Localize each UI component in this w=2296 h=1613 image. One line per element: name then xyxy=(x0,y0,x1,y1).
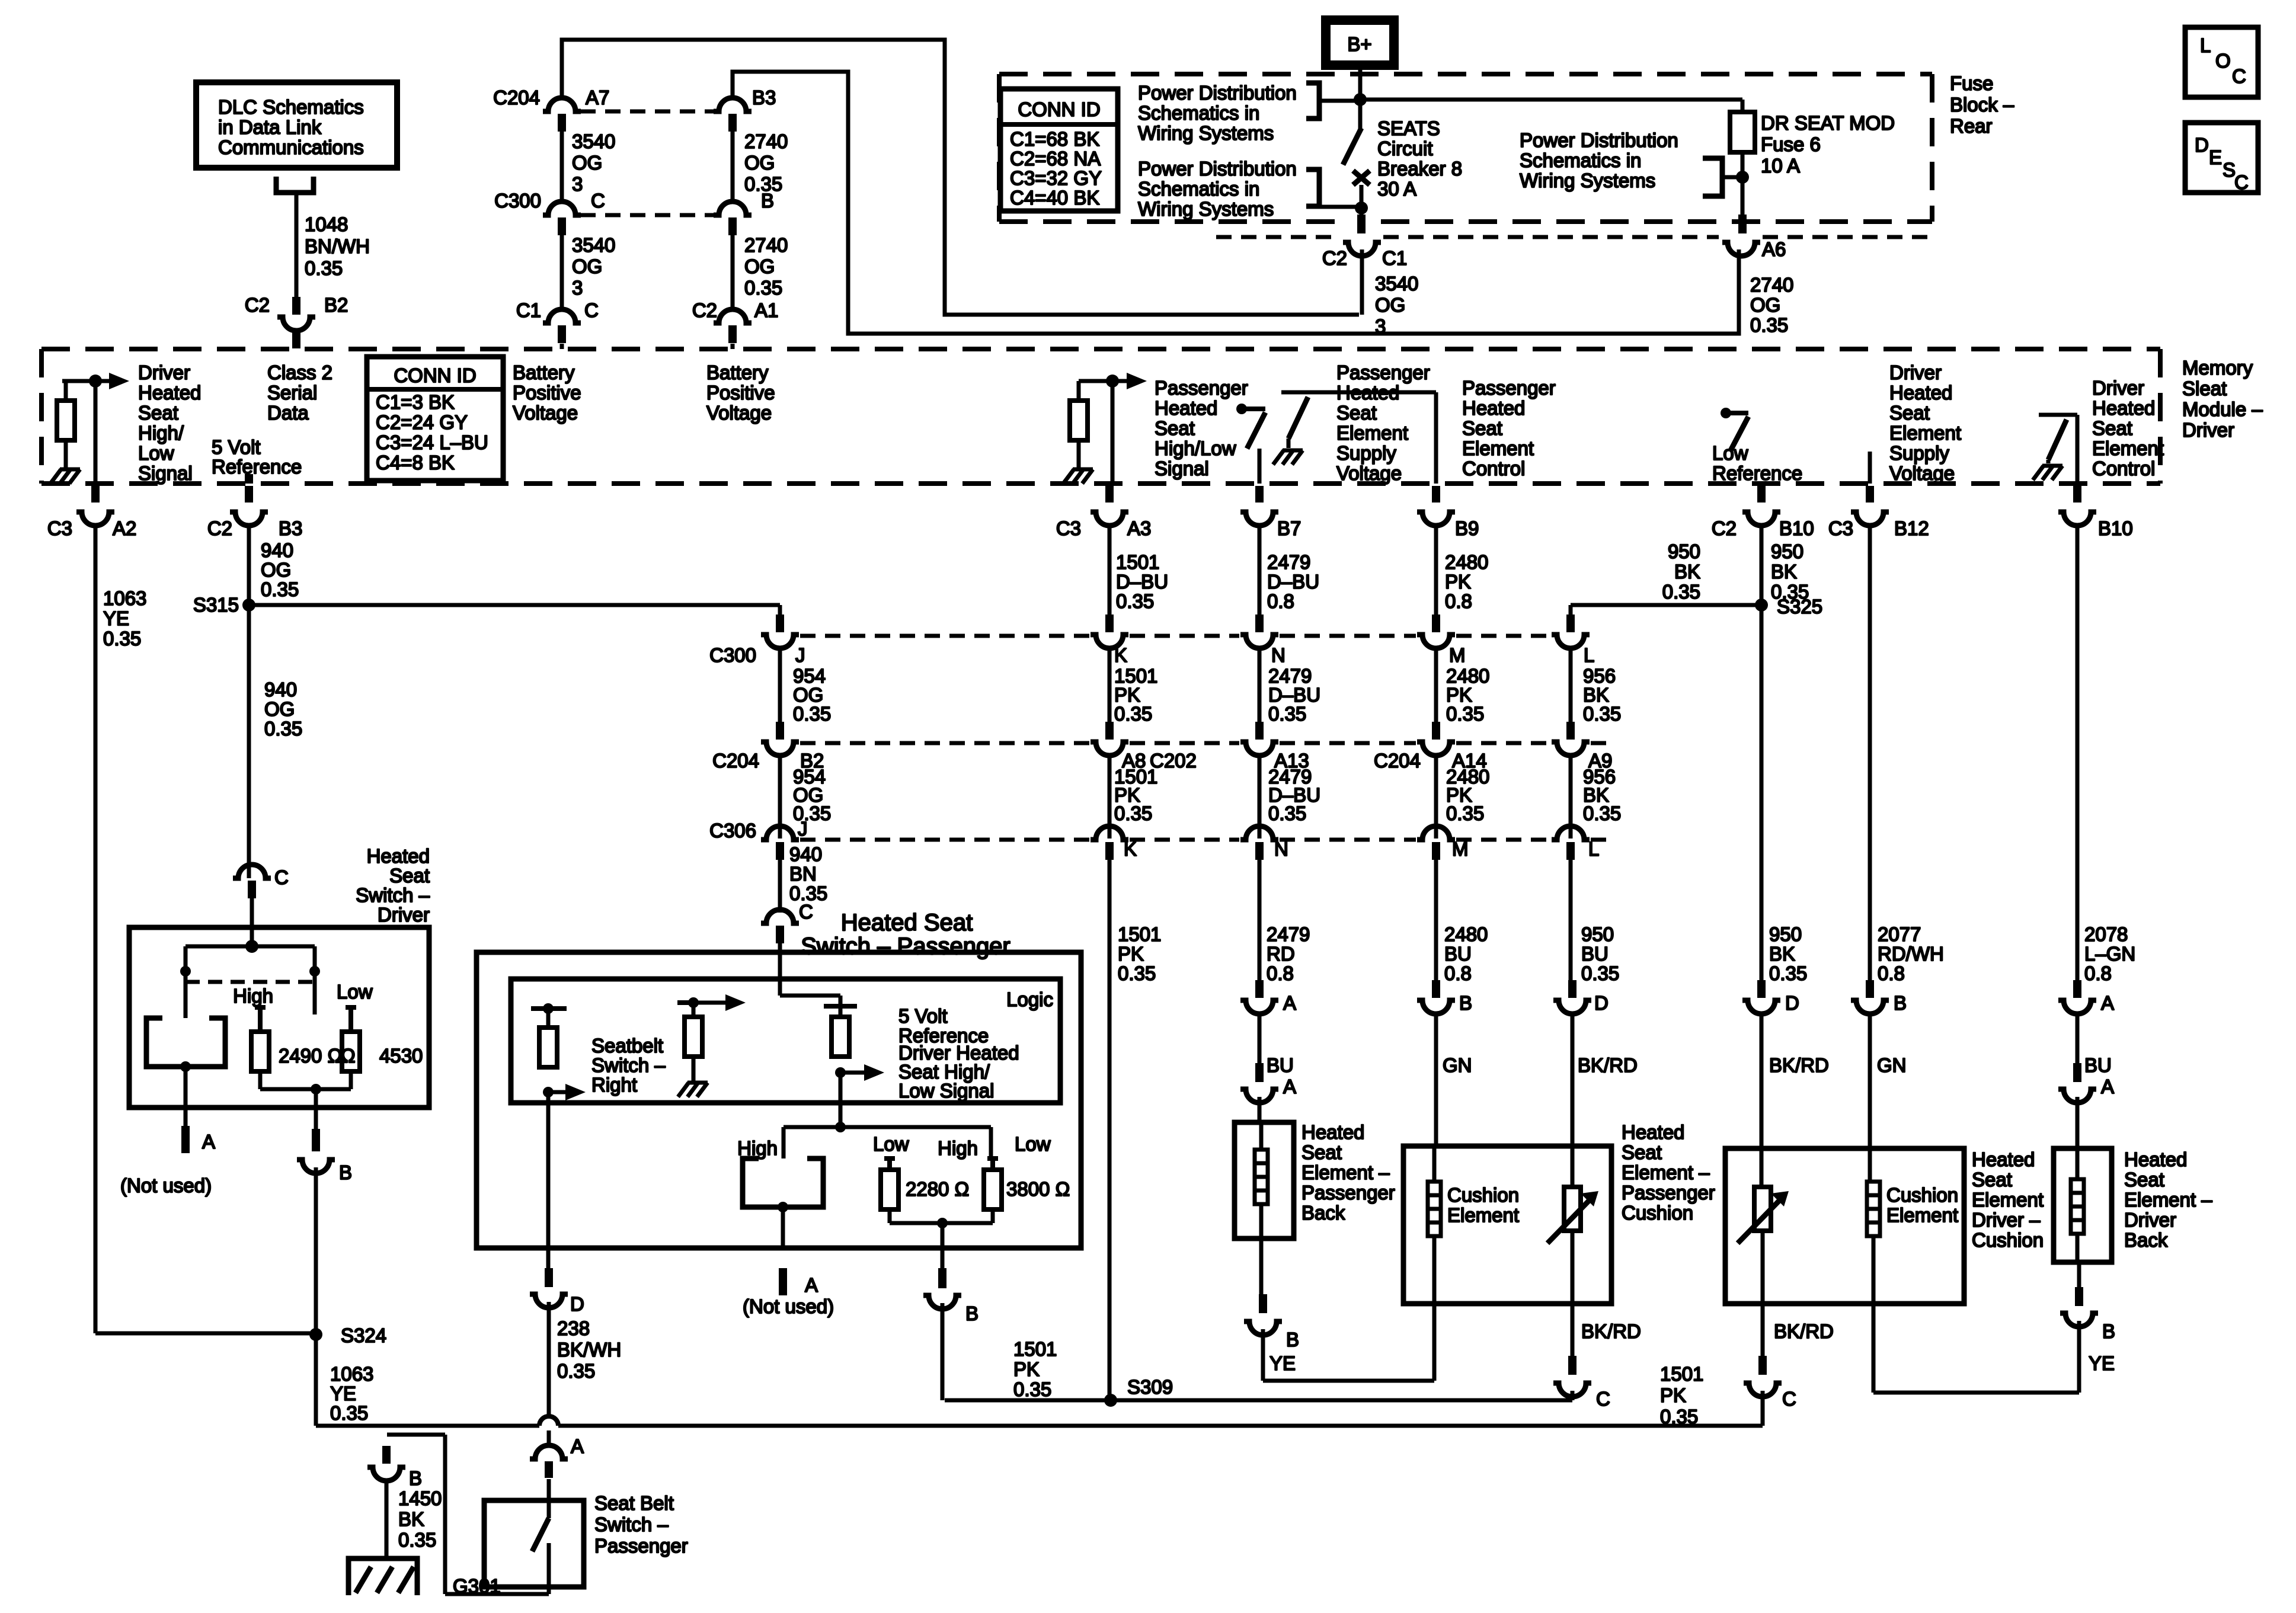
svg-text:Heated: Heated xyxy=(1972,1148,2035,1170)
svg-text:0.35: 0.35 xyxy=(1446,703,1484,725)
svg-text:3: 3 xyxy=(572,277,583,299)
svg-text:K: K xyxy=(1114,644,1127,666)
svg-text:S324: S324 xyxy=(341,1324,386,1346)
svg-text:C: C xyxy=(2232,65,2246,87)
svg-text:C: C xyxy=(584,299,599,321)
svg-text:Positive: Positive xyxy=(513,382,581,404)
svg-text:Switch –: Switch – xyxy=(356,884,430,906)
svg-text:C2: C2 xyxy=(1322,247,1347,269)
svg-text:0.35: 0.35 xyxy=(1660,1406,1698,1428)
svg-text:238: 238 xyxy=(557,1317,590,1339)
svg-text:C4=40 BK: C4=40 BK xyxy=(1010,187,1099,209)
svg-text:J: J xyxy=(798,818,808,840)
svg-text:0.35: 0.35 xyxy=(1268,802,1306,824)
svg-text:2479: 2479 xyxy=(1267,923,1310,945)
svg-text:0.35: 0.35 xyxy=(1013,1378,1051,1400)
svg-text:1501: 1501 xyxy=(1660,1363,1703,1385)
svg-text:Communications: Communications xyxy=(218,136,364,158)
svg-text:Wiring Systems: Wiring Systems xyxy=(1138,122,1274,144)
svg-text:Heated: Heated xyxy=(1155,397,1217,419)
svg-text:10 A: 10 A xyxy=(1761,155,1800,177)
svg-text:0.35: 0.35 xyxy=(261,578,299,600)
svg-text:PK: PK xyxy=(1013,1358,1040,1380)
svg-text:BU: BU xyxy=(1444,943,1472,965)
svg-text:B3: B3 xyxy=(752,87,776,108)
svg-text:1501: 1501 xyxy=(1116,551,1159,573)
svg-text:A1: A1 xyxy=(754,299,778,321)
svg-text:OG: OG xyxy=(572,152,602,174)
svg-text:C: C xyxy=(799,901,813,923)
svg-text:Battery: Battery xyxy=(513,361,575,383)
svg-text:Cushion: Cushion xyxy=(1447,1184,1519,1206)
svg-text:B3: B3 xyxy=(279,517,302,539)
svg-text:0.8: 0.8 xyxy=(1445,590,1472,612)
svg-text:0.35: 0.35 xyxy=(1118,962,1156,984)
svg-text:Data: Data xyxy=(267,402,309,424)
svg-text:Heated: Heated xyxy=(1462,397,1525,419)
svg-text:GN: GN xyxy=(1443,1054,1472,1076)
svg-text:YE: YE xyxy=(2089,1352,2115,1374)
svg-text:0.35: 0.35 xyxy=(1769,962,1807,984)
svg-text:Low: Low xyxy=(1015,1133,1051,1155)
svg-text:0.35: 0.35 xyxy=(1268,703,1306,725)
svg-text:1063: 1063 xyxy=(330,1363,373,1385)
svg-text:BK: BK xyxy=(398,1508,424,1530)
svg-text:C2=24 GY: C2=24 GY xyxy=(376,411,468,433)
svg-text:Power Distribution: Power Distribution xyxy=(1520,129,1678,151)
svg-text:A: A xyxy=(571,1435,584,1457)
svg-text:B: B xyxy=(1459,992,1472,1014)
svg-text:Element: Element xyxy=(1462,437,1534,459)
svg-text:B: B xyxy=(1286,1329,1299,1350)
svg-text:Fuse 6: Fuse 6 xyxy=(1761,133,1821,155)
svg-text:Wiring Systems: Wiring Systems xyxy=(1138,198,1274,220)
svg-text:950: 950 xyxy=(1668,540,1700,562)
svg-text:Driver: Driver xyxy=(1889,361,1942,383)
svg-text:Circuit: Circuit xyxy=(1377,137,1433,159)
svg-text:Schematics in: Schematics in xyxy=(1520,149,1641,171)
svg-text:Positive: Positive xyxy=(706,382,775,404)
svg-text:Reference: Reference xyxy=(1712,462,1802,484)
svg-text:30 A: 30 A xyxy=(1377,178,1416,200)
svg-text:B7: B7 xyxy=(1277,517,1301,539)
svg-text:2490 Ω: 2490 Ω xyxy=(279,1045,342,1067)
svg-text:Driver: Driver xyxy=(2124,1209,2176,1231)
svg-text:Seat: Seat xyxy=(138,402,178,424)
svg-text:3800 Ω: 3800 Ω xyxy=(1006,1178,1070,1200)
svg-text:Heated: Heated xyxy=(1889,382,1952,404)
svg-text:C: C xyxy=(2234,171,2249,193)
svg-text:940: 940 xyxy=(261,539,293,561)
svg-text:BU: BU xyxy=(1267,1054,1294,1076)
svg-text:B: B xyxy=(2102,1320,2115,1342)
svg-text:CONN ID: CONN ID xyxy=(1018,98,1100,120)
svg-text:BK: BK xyxy=(1769,943,1795,965)
svg-text:D: D xyxy=(570,1293,584,1315)
svg-text:A: A xyxy=(1283,1076,1296,1097)
svg-text:C300: C300 xyxy=(709,644,756,666)
svg-text:3540: 3540 xyxy=(1375,273,1418,295)
svg-text:0.35: 0.35 xyxy=(1771,581,1809,603)
svg-text:Seatbelt: Seatbelt xyxy=(591,1035,663,1057)
svg-text:Schematics in: Schematics in xyxy=(1138,178,1259,200)
svg-text:B12: B12 xyxy=(1894,517,1929,539)
svg-text:2078: 2078 xyxy=(2084,923,2128,945)
svg-text:C204: C204 xyxy=(712,750,759,772)
svg-text:950: 950 xyxy=(1581,923,1614,945)
svg-text:Ω: Ω xyxy=(341,1045,356,1067)
svg-text:BU: BU xyxy=(1581,943,1609,965)
svg-text:Low: Low xyxy=(873,1133,909,1155)
svg-text:Driver: Driver xyxy=(138,361,190,383)
svg-text:Heated: Heated xyxy=(367,845,430,867)
svg-text:B2: B2 xyxy=(324,294,348,316)
svg-text:A7: A7 xyxy=(586,87,609,108)
svg-text:A6: A6 xyxy=(1762,238,1786,260)
svg-text:0.8: 0.8 xyxy=(1444,962,1472,984)
svg-text:Reference: Reference xyxy=(212,456,302,478)
svg-text:Voltage: Voltage xyxy=(1336,462,1402,484)
svg-text:Cushion: Cushion xyxy=(1972,1229,2044,1251)
svg-text:2077: 2077 xyxy=(1878,923,1921,945)
svg-text:OG: OG xyxy=(264,698,295,720)
svg-text:N: N xyxy=(1274,838,1288,860)
svg-text:1501: 1501 xyxy=(1118,923,1161,945)
svg-text:Fuse: Fuse xyxy=(1950,72,1993,94)
svg-text:Back: Back xyxy=(2124,1229,2168,1251)
svg-text:C1: C1 xyxy=(516,299,541,321)
svg-text:0.8: 0.8 xyxy=(2084,962,2112,984)
svg-text:C3: C3 xyxy=(47,517,72,539)
svg-text:A: A xyxy=(2101,992,2114,1014)
svg-text:Signal: Signal xyxy=(1155,457,1209,479)
svg-text:Heated Seat: Heated Seat xyxy=(841,910,973,936)
svg-text:A2: A2 xyxy=(113,517,136,539)
svg-text:5 Volt: 5 Volt xyxy=(898,1005,948,1027)
svg-text:2740: 2740 xyxy=(1750,274,1793,296)
svg-text:Logic: Logic xyxy=(1006,988,1053,1010)
svg-text:Driver: Driver xyxy=(2092,377,2144,399)
svg-text:in Data Link: in Data Link xyxy=(218,116,322,138)
svg-text:Supply: Supply xyxy=(1336,442,1396,464)
svg-text:Power Distribution: Power Distribution xyxy=(1138,82,1297,104)
svg-text:0.35: 0.35 xyxy=(1446,802,1484,824)
svg-text:OG: OG xyxy=(261,559,291,581)
svg-text:0.35: 0.35 xyxy=(1583,802,1621,824)
svg-text:C306: C306 xyxy=(709,820,756,841)
svg-text:940: 940 xyxy=(789,843,822,865)
svg-text:B: B xyxy=(409,1467,422,1489)
svg-text:C3=24 L–BU: C3=24 L–BU xyxy=(376,431,488,453)
svg-text:Seat: Seat xyxy=(1462,417,1502,439)
svg-text:C300: C300 xyxy=(494,190,541,212)
svg-text:N: N xyxy=(1271,644,1285,666)
svg-text:High: High xyxy=(938,1137,978,1159)
svg-text:YE: YE xyxy=(330,1382,356,1404)
svg-text:B: B xyxy=(965,1302,978,1324)
svg-text:Voltage: Voltage xyxy=(706,402,772,424)
svg-text:1048: 1048 xyxy=(305,213,348,235)
svg-text:DR SEAT MOD: DR SEAT MOD xyxy=(1761,112,1895,134)
svg-text:C204: C204 xyxy=(1374,750,1421,772)
svg-text:1501: 1501 xyxy=(1013,1338,1057,1360)
svg-text:0.35: 0.35 xyxy=(1581,962,1619,984)
svg-text:BN: BN xyxy=(789,863,817,885)
svg-text:Driver –: Driver – xyxy=(1972,1209,2041,1231)
svg-text:High: High xyxy=(233,985,273,1007)
svg-text:Rear: Rear xyxy=(1950,115,1993,137)
svg-text:Element –: Element – xyxy=(1302,1161,1390,1183)
svg-text:C3=32 GY: C3=32 GY xyxy=(1010,167,1102,189)
svg-text:Passenger: Passenger xyxy=(1622,1182,1715,1204)
svg-text:C: C xyxy=(591,190,605,212)
svg-text:BK/RD: BK/RD xyxy=(1769,1054,1829,1076)
svg-text:Passenger: Passenger xyxy=(1155,377,1248,399)
svg-text:C2: C2 xyxy=(1712,517,1737,539)
svg-text:3540: 3540 xyxy=(572,234,615,256)
svg-text:PK: PK xyxy=(1660,1384,1686,1406)
svg-text:Element: Element xyxy=(1336,422,1408,444)
svg-text:Driver: Driver xyxy=(2182,419,2234,441)
svg-text:L: L xyxy=(2200,34,2211,56)
svg-text:A: A xyxy=(1283,992,1296,1014)
svg-text:Signal: Signal xyxy=(138,462,193,484)
svg-text:C2: C2 xyxy=(207,517,232,539)
svg-text:High/: High/ xyxy=(138,422,184,444)
svg-text:Class 2: Class 2 xyxy=(267,361,332,383)
svg-text:C204: C204 xyxy=(493,87,540,108)
svg-text:YE: YE xyxy=(103,607,129,629)
svg-text:OG: OG xyxy=(1375,294,1405,316)
svg-text:Memory: Memory xyxy=(2182,357,2253,379)
svg-text:Cushion: Cushion xyxy=(1622,1202,1693,1224)
svg-text:A: A xyxy=(2101,1076,2114,1097)
svg-text:Heated: Heated xyxy=(2092,397,2155,419)
svg-text:0.35: 0.35 xyxy=(1116,590,1154,612)
svg-text:Switch – Passenger: Switch – Passenger xyxy=(801,933,1011,959)
svg-text:Element –: Element – xyxy=(1622,1161,1710,1183)
svg-text:B: B xyxy=(339,1161,352,1183)
svg-text:RD/WH: RD/WH xyxy=(1878,943,1944,965)
svg-text:D: D xyxy=(2195,134,2209,156)
svg-text:High: High xyxy=(737,1137,778,1159)
svg-text:J: J xyxy=(795,644,805,666)
svg-text:GN: GN xyxy=(1877,1054,1907,1076)
svg-text:0.35: 0.35 xyxy=(1114,802,1152,824)
svg-text:1450: 1450 xyxy=(398,1487,442,1509)
svg-text:B: B xyxy=(1894,992,1907,1014)
svg-text:Control: Control xyxy=(1462,457,1525,479)
svg-text:4530: 4530 xyxy=(379,1045,423,1067)
svg-text:L: L xyxy=(1584,644,1594,666)
svg-text:C1=3 BK: C1=3 BK xyxy=(376,391,455,413)
svg-text:Element: Element xyxy=(1889,422,1961,444)
svg-text:Element –: Element – xyxy=(2124,1189,2212,1211)
svg-text:0.35: 0.35 xyxy=(330,1402,368,1424)
svg-text:BK/RD: BK/RD xyxy=(1581,1320,1641,1342)
svg-text:Seat: Seat xyxy=(2092,417,2132,439)
svg-text:Back: Back xyxy=(1302,1202,1345,1224)
svg-text:0.35: 0.35 xyxy=(557,1360,595,1382)
svg-text:C2=68 NA: C2=68 NA xyxy=(1010,148,1101,169)
svg-text:Seat: Seat xyxy=(1336,402,1377,424)
svg-text:0.35: 0.35 xyxy=(1583,703,1621,725)
svg-text:Serial: Serial xyxy=(267,382,317,404)
svg-text:Module –: Module – xyxy=(2182,398,2263,420)
svg-text:Passenger: Passenger xyxy=(1302,1182,1395,1204)
svg-text:D–BU: D–BU xyxy=(1116,571,1168,593)
svg-text:S309: S309 xyxy=(1127,1376,1173,1398)
svg-text:Heated: Heated xyxy=(138,382,201,404)
svg-text:B10: B10 xyxy=(2098,517,2133,539)
svg-text:O: O xyxy=(2215,50,2231,72)
svg-text:Low: Low xyxy=(138,442,174,464)
svg-text:B+: B+ xyxy=(1347,33,1371,55)
svg-text:Seat: Seat xyxy=(1622,1141,1662,1163)
svg-text:Breaker 8: Breaker 8 xyxy=(1377,158,1462,180)
svg-text:0.35: 0.35 xyxy=(744,277,782,299)
svg-text:C4=8 BK: C4=8 BK xyxy=(376,452,455,473)
svg-text:CONN ID: CONN ID xyxy=(394,364,476,386)
svg-text:Heated: Heated xyxy=(1622,1121,1684,1143)
svg-text:BK: BK xyxy=(1674,561,1700,583)
svg-text:E: E xyxy=(2209,146,2222,168)
svg-text:D: D xyxy=(1785,992,1799,1014)
svg-text:B10: B10 xyxy=(1779,517,1814,539)
svg-text:DLC Schematics: DLC Schematics xyxy=(218,96,364,118)
svg-text:Passenger: Passenger xyxy=(594,1535,688,1557)
svg-text:C2: C2 xyxy=(245,294,270,316)
svg-text:S315: S315 xyxy=(193,594,239,616)
svg-text:BU: BU xyxy=(2084,1054,2112,1076)
svg-text:Element: Element xyxy=(1886,1204,1958,1226)
svg-text:G301: G301 xyxy=(453,1575,501,1597)
svg-text:C: C xyxy=(274,866,289,888)
svg-text:PK: PK xyxy=(1118,943,1144,965)
svg-text:5 Volt: 5 Volt xyxy=(212,436,261,458)
svg-text:C1: C1 xyxy=(1382,247,1407,269)
svg-text:2480: 2480 xyxy=(1445,551,1488,573)
svg-text:BN/WH: BN/WH xyxy=(305,235,370,257)
svg-text:A: A xyxy=(202,1131,215,1153)
svg-text:B: B xyxy=(761,190,774,212)
svg-text:OG: OG xyxy=(1750,294,1780,316)
svg-text:OG: OG xyxy=(744,152,775,174)
svg-text:0.35: 0.35 xyxy=(1114,703,1152,725)
svg-text:BK/RD: BK/RD xyxy=(1774,1320,1834,1342)
svg-text:K: K xyxy=(1124,838,1137,860)
svg-text:A3: A3 xyxy=(1127,517,1151,539)
svg-text:C1=68 BK: C1=68 BK xyxy=(1010,128,1099,150)
svg-text:0.35: 0.35 xyxy=(264,718,302,740)
svg-text:Schematics in: Schematics in xyxy=(1138,102,1259,124)
svg-text:BK/RD: BK/RD xyxy=(1578,1054,1638,1076)
svg-text:Low: Low xyxy=(337,981,373,1003)
svg-text:0.8: 0.8 xyxy=(1267,962,1294,984)
svg-text:C: C xyxy=(1596,1388,1610,1410)
svg-text:Passenger: Passenger xyxy=(1462,377,1556,399)
svg-text:Cushion: Cushion xyxy=(1886,1184,1958,1206)
svg-text:OG: OG xyxy=(572,255,602,277)
svg-text:Low Signal: Low Signal xyxy=(898,1080,994,1102)
svg-text:M: M xyxy=(1449,644,1466,666)
svg-text:C3: C3 xyxy=(1056,517,1081,539)
svg-text:Low: Low xyxy=(1712,442,1748,464)
svg-text:YE: YE xyxy=(1269,1352,1296,1374)
svg-text:Block –: Block – xyxy=(1950,94,2014,116)
svg-text:Seat Belt: Seat Belt xyxy=(594,1492,674,1514)
svg-text:C3: C3 xyxy=(1828,517,1853,539)
svg-text:2740: 2740 xyxy=(744,130,788,152)
svg-text:(Not used): (Not used) xyxy=(743,1295,834,1317)
svg-text:Control: Control xyxy=(2092,457,2155,479)
svg-text:3: 3 xyxy=(1375,315,1386,337)
svg-text:Right: Right xyxy=(591,1074,637,1096)
svg-text:Switch –: Switch – xyxy=(591,1054,666,1076)
svg-text:Sleat: Sleat xyxy=(2182,377,2227,399)
svg-text:0.35: 0.35 xyxy=(793,703,831,725)
svg-text:0.35: 0.35 xyxy=(103,628,141,649)
svg-text:2480: 2480 xyxy=(1444,923,1488,945)
svg-text:BK: BK xyxy=(1771,561,1797,583)
svg-text:Battery: Battery xyxy=(706,361,769,383)
svg-text:Element: Element xyxy=(2092,437,2164,459)
svg-text:Seat: Seat xyxy=(1155,417,1195,439)
svg-text:Seat: Seat xyxy=(389,865,430,886)
svg-text:B9: B9 xyxy=(1455,517,1479,539)
svg-text:Passenger: Passenger xyxy=(1336,361,1430,383)
svg-text:RD: RD xyxy=(1267,943,1295,965)
svg-text:C2: C2 xyxy=(692,299,717,321)
svg-text:2740: 2740 xyxy=(744,234,788,256)
svg-text:High/Low: High/Low xyxy=(1155,437,1236,459)
svg-text:0.35: 0.35 xyxy=(305,257,343,279)
svg-text:Driver: Driver xyxy=(378,904,430,926)
svg-text:Seat: Seat xyxy=(1972,1169,2012,1190)
svg-text:OG: OG xyxy=(744,255,775,277)
svg-text:2479: 2479 xyxy=(1267,551,1310,573)
svg-text:C: C xyxy=(1782,1388,1796,1410)
svg-text:S: S xyxy=(2223,159,2236,181)
svg-text:940: 940 xyxy=(264,679,297,700)
svg-text:0.35: 0.35 xyxy=(1750,314,1788,336)
svg-text:(Not used): (Not used) xyxy=(120,1174,212,1196)
svg-text:2280 Ω: 2280 Ω xyxy=(906,1178,969,1200)
svg-text:D–BU: D–BU xyxy=(1267,571,1319,593)
svg-text:Wiring Systems: Wiring Systems xyxy=(1520,169,1655,191)
svg-text:950: 950 xyxy=(1769,923,1802,945)
svg-text:L–GN: L–GN xyxy=(2084,943,2135,965)
svg-text:Seat: Seat xyxy=(1889,402,1930,424)
svg-text:Switch –: Switch – xyxy=(594,1513,669,1535)
svg-text:Power Distribution: Power Distribution xyxy=(1138,158,1297,180)
svg-text:0.35: 0.35 xyxy=(398,1529,436,1551)
svg-text:Voltage: Voltage xyxy=(1889,462,1955,484)
svg-text:Voltage: Voltage xyxy=(513,402,578,424)
svg-text:0.8: 0.8 xyxy=(1267,590,1294,612)
svg-text:M: M xyxy=(1452,838,1469,860)
svg-text:PK: PK xyxy=(1445,571,1471,593)
svg-text:3: 3 xyxy=(572,173,583,195)
svg-text:SEATS: SEATS xyxy=(1377,117,1440,139)
svg-text:Heated: Heated xyxy=(1302,1121,1364,1143)
svg-text:950: 950 xyxy=(1771,540,1803,562)
svg-text:BK/WH: BK/WH xyxy=(557,1339,621,1361)
svg-text:Supply: Supply xyxy=(1889,442,1949,464)
svg-text:Element: Element xyxy=(1972,1189,2044,1211)
svg-text:0.35: 0.35 xyxy=(1662,581,1700,603)
svg-text:L: L xyxy=(1588,838,1599,860)
